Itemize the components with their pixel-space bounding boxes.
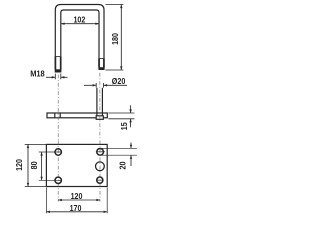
hole top-left — [55, 149, 61, 155]
dimension 20 extension lines right — [101, 143, 137, 167]
dimension 80 line with arrows — [41, 152, 43, 180]
dimension 120 bottom extension handled by centerlines — [58, 199, 100, 201]
dimension 120 left extension lines — [25, 144, 46, 186]
side view hole edge lines — [54, 113, 56, 118]
dimension 120 left line with arrows — [27, 144, 29, 186]
svg-text:80: 80 — [30, 161, 39, 169]
U-bolt right leg thread heavy edges — [98, 59, 100, 68]
centerline left bolt axis — [57, 75, 59, 140]
M18 dimension arrows — [46, 76, 55, 78]
side view bolt leg — [96, 88, 98, 116]
crosshair bottom-right hole — [96, 179, 104, 181]
side view plate bar — [47, 113, 107, 118]
centerline right bolt axis — [99, 73, 101, 140]
dimension 80 extension lines through left holes — [39, 152, 62, 180]
svg-text:120: 120 — [15, 159, 24, 171]
hole top-right small — [97, 148, 104, 155]
dimension 180 line with arrows — [120, 5, 122, 71]
svg-text:M18: M18 — [30, 70, 45, 79]
dimension 102 line with arrows — [61, 23, 99, 25]
centerline right hole column — [99, 141, 101, 202]
hole bottom-right small — [97, 177, 103, 183]
U-bolt inner contour — [61, 10, 99, 73]
svg-text:102: 102 — [74, 16, 86, 25]
dimension 20 line with outside arrows — [130, 143, 132, 149]
svg-text:15: 15 — [120, 122, 129, 130]
dimension 15 extension lines — [108, 105, 134, 127]
hole bottom-left — [55, 177, 61, 183]
svg-text:Ø20: Ø20 — [112, 77, 126, 86]
U-bolt right leg end cap — [99, 67, 104, 70]
side view nut under plate — [96, 116, 103, 120]
U-bolt right leg thread start tick — [99, 58, 104, 60]
diameter 20 dimension arrows — [84, 84, 96, 86]
dimension 170 line with arrows — [46, 211, 107, 213]
dimension 170 extension lines — [46, 188, 107, 214]
diameter 20 extension ticks — [84, 83, 127, 88]
U-bolt left leg thread heavy edges — [54, 57, 56, 70]
svg-text:180: 180 — [111, 33, 120, 45]
bottom view plate rectangle — [46, 144, 107, 186]
dimension 180 extension lines — [106, 5, 124, 71]
centerline left hole column — [57, 141, 59, 202]
U-bolt left leg thread start tick — [55, 56, 61, 58]
hole middle-right large — [96, 162, 105, 171]
crosshair top-right hole — [96, 151, 105, 153]
svg-text:170: 170 — [70, 204, 82, 213]
U-bolt left leg end cap — [55, 69, 61, 72]
U-bolt outer contour — [55, 5, 104, 73]
svg-text:120: 120 — [71, 192, 83, 201]
svg-text:20: 20 — [119, 161, 128, 169]
M18 extension ticks below left leg — [46, 74, 68, 80]
dimension 15 line with outside arrows — [130, 105, 132, 113]
